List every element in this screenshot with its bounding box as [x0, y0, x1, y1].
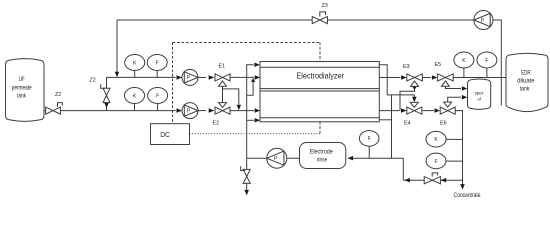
svg-text:E1: E1	[219, 64, 226, 70]
svg-text:tank: tank	[17, 94, 27, 100]
svg-text:F: F	[368, 136, 371, 142]
svg-text:Concentrate: Concentrate	[454, 192, 481, 199]
svg-text:F: F	[485, 58, 488, 64]
svg-text:EDR: EDR	[521, 69, 531, 76]
svg-text:E2: E2	[213, 121, 220, 127]
svg-text:diluate: diluate	[517, 77, 535, 84]
svg-text:spez: spez	[475, 91, 484, 96]
svg-text:tank: tank	[520, 86, 531, 93]
svg-text:F: F	[156, 60, 159, 66]
svg-text:E4: E4	[404, 121, 411, 127]
svg-text:Electrode: Electrode	[310, 150, 334, 156]
svg-text:Z3: Z3	[322, 3, 328, 9]
svg-text:DC: DC	[160, 130, 170, 139]
svg-text:F: F	[434, 159, 437, 165]
svg-text:Z2: Z2	[90, 78, 96, 84]
svg-text:E5: E5	[435, 62, 442, 68]
svg-text:rinse: rinse	[317, 157, 328, 163]
svg-text:UF: UF	[19, 77, 25, 83]
svg-text:E6: E6	[440, 121, 447, 127]
svg-text:F: F	[156, 93, 159, 99]
svg-text:Electrodialyzer: Electrodialyzer	[296, 70, 344, 80]
svg-text:Z2: Z2	[55, 92, 61, 98]
svg-text:E3: E3	[403, 64, 410, 70]
svg-text:permeate: permeate	[12, 85, 33, 91]
